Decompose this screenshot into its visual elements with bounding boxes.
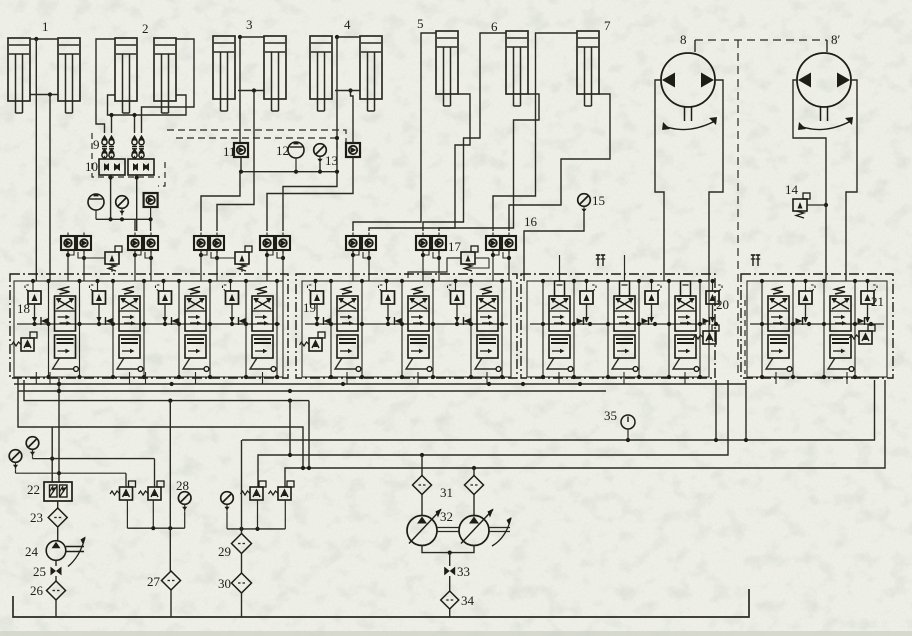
motor 8' [797,53,853,130]
svg-text:35: 35 [604,408,617,423]
check valve pair 5 [346,233,376,282]
label 23 [30,510,43,525]
wire group4 drop B lower [267,157,353,231]
wire bank drain drop [129,372,131,384]
wire group3 drop A lower [201,172,240,231]
svg-text:2: 2 [142,21,149,36]
cylinder 7 [577,31,599,106]
wire 32 couple [437,528,459,532]
svg-text:4: 4 [344,17,351,32]
valve section A4 [223,285,276,371]
label 14 [785,182,799,197]
wire label8' stub [826,40,828,52]
svg-text:33: 33 [457,564,470,579]
check valve pair 1 [61,233,91,282]
wire section C2 rails [606,279,657,379]
wire section A4 rails [228,279,279,379]
wire 11 to bus [240,157,242,172]
gauge 35 [621,415,635,440]
wire 26 to tank bus [55,600,57,617]
svg-text:25: 25 [33,564,46,579]
wire section A1 rails [31,279,82,379]
label 9 [93,137,100,152]
pilot dashed line upper [167,130,346,142]
svg-text:15: 15 [592,193,605,208]
wire pair2 feed R [150,219,152,231]
svg-text:19: 19 [303,300,316,315]
wire group2 right loop [142,39,195,133]
valve bank D rail [750,323,884,325]
valve bank D dash-dot border [741,274,893,378]
wire bank drain drop [145,372,147,384]
wire 27 to tank [170,590,172,617]
wire to pump22 A [50,427,54,482]
svg-text:13: 13 [325,153,338,168]
wire group3 bottom connector [238,88,264,92]
valve section C2 [612,281,661,371]
wire group3 top connector [238,36,264,38]
wire 15 drop [524,213,584,281]
label 32 [440,509,453,524]
label 8' [831,32,841,47]
wire 31b feed [473,468,475,476]
valve 25 [51,567,62,576]
label 2 [142,21,149,36]
label 19 [303,300,316,315]
label 5 [417,16,424,31]
valve section B1 [308,285,361,371]
wire section A3 rails [161,279,212,379]
accumulator 12 [288,142,304,172]
label 15 [592,193,605,208]
wire 23 to 24 [57,527,59,541]
wire bank drain drop [417,372,419,384]
wire bank drain drop [684,372,686,384]
svg-text:23: 23 [30,510,43,525]
wire section D1 rails [760,279,811,379]
wire bank drain drop [49,372,51,384]
valve bank C dash-dot border [521,274,715,378]
wire group2 U tap b [132,113,136,133]
gauge 13 [314,144,327,164]
cylinder 5 [436,31,458,106]
svg-text:7: 7 [604,18,611,33]
relief valve 2'' [217,246,252,272]
wire group3 drop A [238,35,242,143]
wire group2 U tap a [109,113,113,133]
svg-text:30: 30 [218,576,231,591]
wire 24 to 25 [55,560,57,566]
wire 10a drop [109,175,113,221]
valve bank B inner frame [302,281,511,377]
wire section B3 rails [453,279,504,379]
wire section D2 rails [822,279,873,379]
pump 32b [459,509,494,546]
wire L0 [24,380,309,403]
label 35 [604,408,617,423]
shuttle 9d [138,135,144,159]
pilot dashed 8-8' [695,39,827,41]
svg-text:9: 9 [93,137,100,152]
wire bank drain drop [623,372,625,384]
svg-text:18: 18 [17,301,30,316]
pilot valve 12Lb [144,193,158,219]
wire pair2 feed L [134,219,136,231]
wire 32-33 [449,553,451,566]
valve bank B dash-dot border [296,274,517,378]
cylinder 6 [506,31,528,106]
motor 8 [661,53,717,130]
cylinder 4b [360,36,382,111]
check valve pair 3 [194,233,224,282]
wire group1 drop A [35,39,37,281]
valve bank C inlet relief [694,325,720,344]
valve bank D inner frame [747,281,887,377]
wire motor8' left port [793,80,828,281]
label 4 [344,17,351,32]
wire 32 shaft [489,517,512,546]
label 27 [147,574,161,589]
label 10 [85,159,98,174]
cylinder 1b [58,38,80,113]
relief valve 22c [110,481,136,500]
gauge 29a [221,492,234,529]
relief valve 29c [269,481,295,500]
wire bus2 [18,389,606,393]
check valve pair 6 [416,233,446,282]
wire 31a-32a [421,495,423,516]
svg-text:11: 11 [223,144,236,159]
manifold 10a [99,159,125,175]
svg-text:8′: 8′ [831,32,841,47]
svg-text:34: 34 [461,593,475,608]
wire 30 to tank [241,593,243,617]
valve bank A rail [17,323,280,325]
wire 22 to 23 [57,501,59,508]
svg-text:26: 26 [30,583,44,598]
wire L0 drop a [289,401,291,455]
wire bankC sec1 feed [559,255,561,281]
svg-text:32: 32 [440,509,453,524]
wire bank drain drop [775,372,777,384]
wire group4 drop A [283,37,339,231]
wire to pump22 B [57,378,61,482]
wire 29 riser [241,440,243,534]
cylinder 3a [213,36,235,111]
filter 34 [441,591,459,609]
valve bank A inner frame [14,281,283,377]
label 28 [176,478,189,493]
wire L0 drop b [308,401,310,468]
valve section C1 [547,281,596,371]
gauge 15 [578,194,591,214]
label 18 [17,301,30,316]
relief valve 17 [408,246,489,278]
wire group1 top connector [30,37,58,41]
svg-text:16: 16 [524,214,538,229]
shuttle 9a [101,135,107,159]
wire bus1 [14,382,746,386]
svg-text:3: 3 [246,17,253,32]
label 16 [524,214,538,229]
wire cyl5 port B [369,94,470,231]
wire bank drain drop [486,372,488,384]
label 11 [223,144,236,159]
wire drain bus 528 [127,526,184,530]
valve section C3 [673,281,722,371]
label 6 [491,19,498,34]
wire 31a feed [421,455,423,476]
wire bank drain drop [558,372,560,384]
wire motor8 right port [709,80,723,281]
gauge 12La [116,196,129,216]
wire L1 [242,380,875,442]
wire cyl7 port B [509,94,610,231]
manifold 10b [128,159,154,175]
svg-text:24: 24 [25,544,39,559]
valve section A2 [90,285,143,371]
wire group4 drop B upper [348,88,353,143]
wire L3 [285,380,885,487]
svg-text:31: 31 [440,485,453,500]
label 31 [440,485,453,500]
valve bank A dash-dot border [10,274,288,378]
wire section B1 rails [313,279,364,379]
filter 31a [413,476,432,495]
label 13 [325,153,338,168]
cylinder 1a [8,38,30,113]
label 29 [218,544,231,559]
shuttle 9b [108,135,114,159]
valve bank C rail [530,323,706,325]
wire bank drain drop [846,372,848,384]
wire 29-30 [241,554,243,574]
valve bank B rail [305,323,508,325]
valve section A3 [156,285,209,371]
check valve pair 7 [486,233,516,282]
label 26 [30,583,44,598]
wire pilot bus 171 [239,170,337,174]
svg-text:6: 6 [491,19,498,34]
label 8 [680,32,687,47]
label 20 [716,297,729,312]
wire group2 left loop [96,39,115,133]
svg-text:29: 29 [218,544,231,559]
wire 31b-32b [473,495,475,516]
wire section C3 rails [667,279,718,379]
valve section D2 [828,285,877,371]
cylinder 3b [264,36,286,111]
valve section D1 [766,285,815,371]
cylinder 4a [310,36,332,111]
label 34 [461,593,475,608]
wire bankC sec2 feed [624,255,626,281]
svg-text:22: 22 [27,482,40,497]
valve bank B inlet relief [300,332,326,351]
wire 32 sump U [422,546,474,555]
pump unit 22 [44,482,72,501]
wire 27 riser [169,401,171,571]
wire reliefB feeds [52,459,154,487]
svg-text:14: 14 [785,182,799,197]
valve section A1 [25,285,78,371]
pilot marks bank D [751,255,760,266]
wire motor8 left port [655,80,664,281]
valve section B3 [448,285,501,371]
gauge 22b [9,450,126,474]
wire motor8' right port [846,80,857,281]
svg-text:8: 8 [680,32,687,47]
label 12 [276,143,289,158]
filter 27 [162,571,181,590]
wire bank drain drop [262,372,264,384]
relief valve 14 [793,193,826,218]
valve 33 [444,567,455,576]
relief valve 29b [241,481,267,500]
label 1 [42,19,49,34]
wire group4 bottom connector [335,90,360,92]
label 17 [448,239,462,254]
wire group1 bottom connector [30,92,58,96]
wire y427 line [18,378,303,468]
wire L1 riser a [715,380,717,440]
wire reliefB drains [127,500,153,528]
cylinder 2a [115,38,137,113]
wire section C1 rails [541,279,592,379]
wire drain bus 529 [227,527,285,531]
valve bank C inner frame [527,281,709,377]
pilot valve 11b [346,143,360,157]
gauge 22a [26,437,52,459]
shuttle 9c [131,135,137,159]
pilot valve 11 [234,143,248,157]
filter 31b [465,476,484,495]
wire 13 stem [319,163,321,172]
wire cyl6 port B [439,94,539,231]
wire cyl5 port A [353,33,436,231]
label 7 [604,18,611,33]
wire section B2 rails [384,279,435,379]
svg-text:20: 20 [716,297,729,312]
label 30 [218,576,231,591]
gauge 28 [178,492,191,529]
wire section A2 rails [95,279,146,379]
wire reliefC drains [258,500,286,529]
wire group2 inner U [108,95,187,115]
pump 24 [46,537,85,567]
label 24 [25,544,39,559]
pump 32a [407,509,442,546]
pilot dashed center [737,40,739,374]
wire bank drain drop [35,372,37,384]
wire 25 to 26 [55,576,57,581]
wire tank bus [13,589,749,617]
wire cyl7 port A [493,33,577,231]
label 22 [27,482,40,497]
label 25 [33,564,46,579]
label 21 [871,294,884,309]
label 33 [457,564,470,579]
svg-text:27: 27 [147,574,161,589]
cylinder 2b [154,38,176,113]
relief valve 2' [84,246,122,272]
wire label8 stub [694,40,696,52]
filter 23 [48,508,67,527]
wire manifold junction [96,217,153,221]
valve section B2 [379,285,432,371]
svg-text:21: 21 [871,294,884,309]
svg-text:1: 1 [42,19,49,34]
svg-text:17: 17 [448,239,462,254]
pilot dashed line lower [176,138,337,150]
wire 33-34 [449,576,451,591]
check valve pair 4 [260,233,290,282]
check valve pair 2 [128,233,158,282]
filter 26 [47,581,66,600]
wire 10b drop [135,175,139,231]
svg-text:12: 12 [276,143,289,158]
svg-text:28: 28 [176,478,189,493]
wire group4 top connector [335,35,360,39]
label 3 [246,17,253,32]
wire L2 [258,380,728,487]
valve bank D inlet relief [850,325,876,344]
filter 30 [232,573,252,593]
relief valve 22d [139,481,165,500]
svg-text:5: 5 [417,16,424,31]
wire 34 to tank [449,609,451,617]
wire group3 drop B [217,91,254,232]
pilot marks bank C [596,255,605,266]
wire bank drain drop [195,372,197,384]
filter 29 [232,534,252,554]
wire cyl6 port A [423,33,506,231]
valve bank A inlet relief [12,332,38,351]
wire bank drain drop [346,372,348,384]
wire L1 riser b [745,380,747,440]
accumulator 12L [88,194,104,219]
wire group1 drop B [49,95,51,282]
pilot dashed box 9/10 [92,133,165,186]
pilot dashed center b [744,300,746,374]
